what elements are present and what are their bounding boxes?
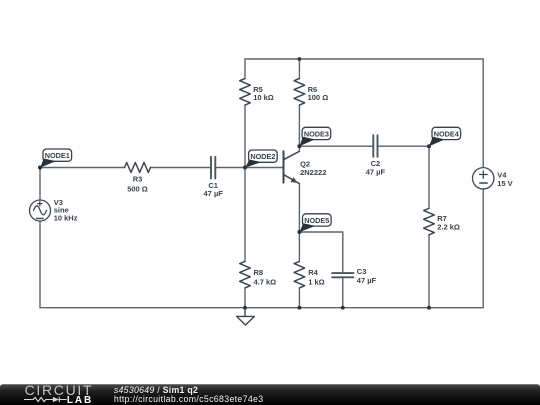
wire: R6 collector branch <box>298 59 300 151</box>
resistor R5 <box>240 79 251 106</box>
label R3 value <box>127 174 148 193</box>
svg-text:47 µF: 47 µF <box>366 168 386 177</box>
junction dot ground rail R7 <box>427 306 431 310</box>
transistor Q2 (2N2222 NPN) <box>284 151 300 183</box>
node NODE5 label callout <box>300 214 332 232</box>
label R4 value <box>308 268 324 286</box>
svg-text:R3: R3 <box>133 174 143 183</box>
capacitor C2 <box>373 135 377 157</box>
label C3 value <box>357 267 377 285</box>
junction dot NODE5 <box>297 230 301 234</box>
svg-text:http://circuitlab.com/c5c683et: http://circuitlab.com/c5c683ete74e3 <box>114 394 264 404</box>
svg-text:R8: R8 <box>254 268 264 277</box>
source V3 (sine) <box>30 200 51 221</box>
label R5 value <box>253 85 274 102</box>
wire: emitter to NODE5 <box>298 184 300 232</box>
svg-text:2.2 kΩ: 2.2 kΩ <box>437 223 460 232</box>
CircuitLab logo resistor-diode squiggle <box>24 397 67 402</box>
junction dot top rail / R6 <box>298 57 302 61</box>
junction dot ground rail R4 <box>298 306 302 310</box>
svg-text:LAB: LAB <box>67 395 93 405</box>
resistor R8 <box>240 261 251 288</box>
svg-text:10 kHz: 10 kHz <box>54 214 78 223</box>
svg-text:NODE2: NODE2 <box>250 152 275 161</box>
svg-text:47 µF: 47 µF <box>204 189 224 198</box>
svg-text:NODE5: NODE5 <box>304 216 329 225</box>
node NODE2 label callout <box>245 150 277 168</box>
wire: V3 branch left side <box>39 168 41 308</box>
svg-text:500 Ω: 500 Ω <box>127 184 148 193</box>
svg-text:C2: C2 <box>371 159 381 168</box>
svg-text:R7: R7 <box>437 214 447 223</box>
resistor R6 <box>294 79 305 106</box>
wire: V4 branch right side <box>482 59 484 308</box>
junction dot ground rail R8 <box>243 306 247 310</box>
junction dot NODE1 <box>38 166 42 170</box>
svg-text:4.7 kΩ: 4.7 kΩ <box>254 277 277 286</box>
svg-text:10 kΩ: 10 kΩ <box>253 93 274 102</box>
svg-text:R4: R4 <box>308 268 318 277</box>
Q2 emitter arrow <box>291 177 298 183</box>
label R6 value <box>308 85 329 102</box>
CircuitLab logo diode triangle <box>53 397 59 402</box>
svg-text:15 V: 15 V <box>497 179 512 188</box>
svg-text:Q2: Q2 <box>300 159 310 168</box>
label R7 value <box>437 214 460 232</box>
ground <box>237 308 255 325</box>
capacitor C1 <box>211 157 215 179</box>
label R8 value <box>254 268 277 286</box>
node NODE1 label callout <box>40 149 71 168</box>
label V4 value <box>497 171 512 189</box>
junction dot ground rail C3 <box>341 306 345 310</box>
wire: R5/R8 branch <box>244 59 246 308</box>
svg-text:2N2222: 2N2222 <box>300 168 326 177</box>
node NODE4 label callout <box>429 127 461 146</box>
source V4 (DC 15V) <box>473 168 494 189</box>
svg-text:NODE1: NODE1 <box>45 151 70 160</box>
resistor R7 <box>424 208 435 235</box>
svg-text:1 kΩ: 1 kΩ <box>308 277 324 286</box>
capacitor C3 <box>332 273 353 277</box>
junction dot NODE3 <box>297 144 301 148</box>
label C1 value <box>204 181 224 198</box>
junction dot NODE2 <box>243 166 247 170</box>
wire: main input rail NODE1 to Q2 base <box>40 167 284 169</box>
svg-text:100 Ω: 100 Ω <box>308 93 329 102</box>
svg-text:47 µF: 47 µF <box>357 276 377 285</box>
svg-text:C3: C3 <box>357 267 367 276</box>
wire: top supply rail <box>245 58 483 60</box>
svg-text:NODE4: NODE4 <box>434 130 460 139</box>
footer bar <box>0 384 540 405</box>
wire: C3 bottom to rail <box>342 277 344 307</box>
wire: collector rail NODE3 to NODE4 <box>299 145 429 147</box>
junction dot NODE4 <box>427 144 431 148</box>
wire: NODE5 to C3 <box>299 232 342 273</box>
wire: R7 branch <box>428 146 430 308</box>
label V3 value <box>54 198 78 223</box>
wire: bottom ground rail <box>40 307 483 309</box>
svg-text:NODE3: NODE3 <box>304 130 329 139</box>
label C2 value <box>366 159 386 177</box>
wire: R4 branch <box>298 232 300 308</box>
resistor R4 <box>294 261 305 288</box>
resistor R3 <box>125 163 151 173</box>
label Q2 value <box>300 159 326 177</box>
node NODE3 label callout <box>300 127 331 146</box>
